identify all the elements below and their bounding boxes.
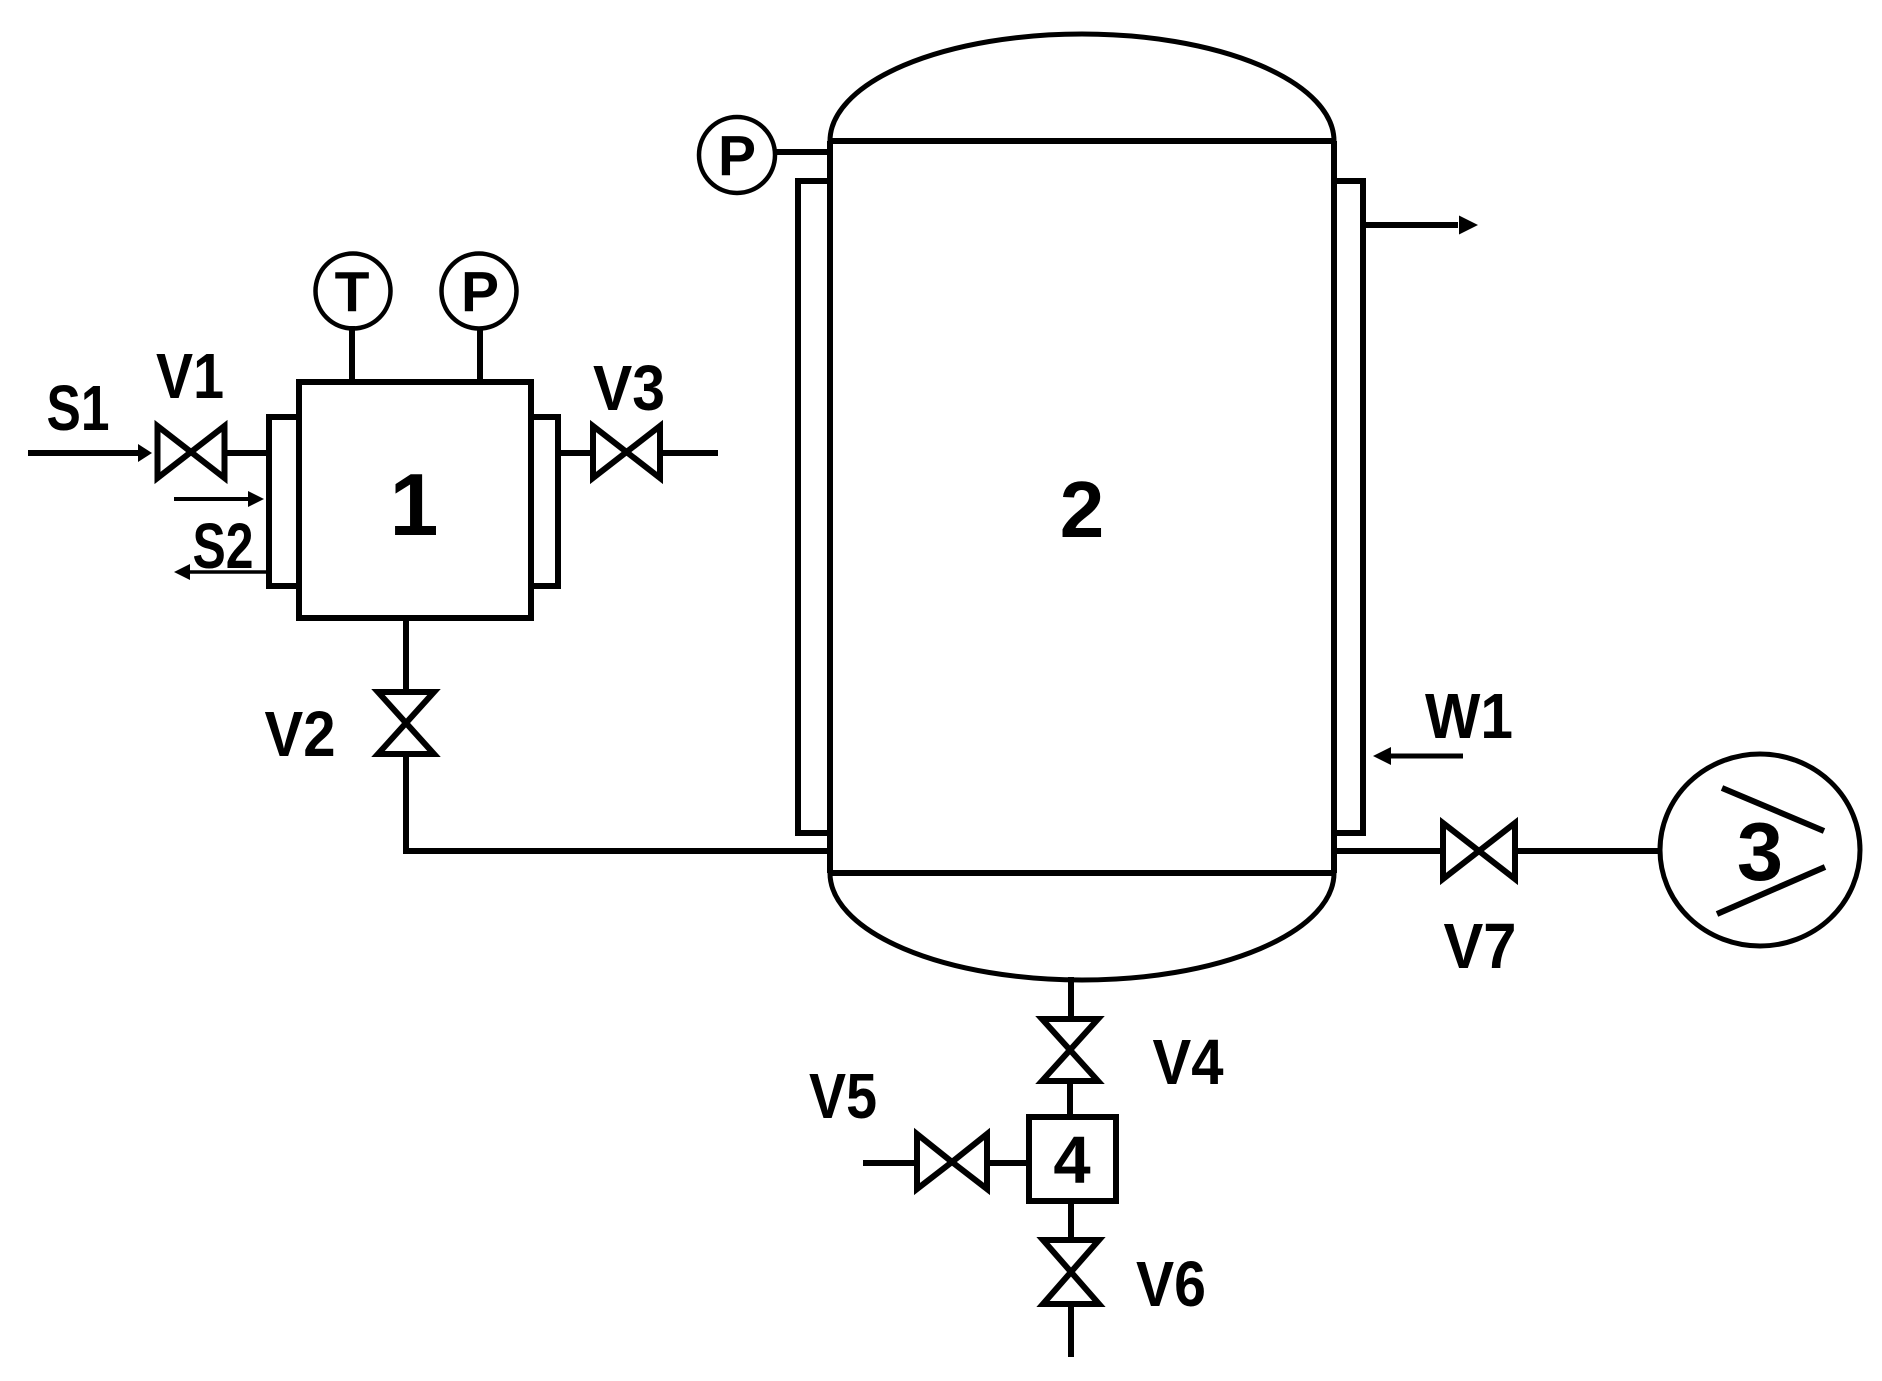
svg-text:W1: W1 [1425,680,1513,752]
valve V6 [1043,1240,1099,1304]
svg-text:P: P [461,260,499,324]
pump 3 [1660,754,1860,946]
jacket right [1334,181,1363,833]
valve V4 [1042,1019,1098,1081]
jacket left [798,181,830,833]
svg-text:V7: V7 [1444,910,1517,982]
svg-text:V1: V1 [156,340,224,412]
gauge P2 on vessel 2 [699,117,775,193]
svg-text:T: T [335,260,370,324]
wire vessel 2 to V7 [1334,848,1443,854]
svg-text:V3: V3 [593,352,665,424]
valve V7 [1443,823,1515,879]
wire vessel 1 bottom stem [403,618,409,692]
svg-text:V6: V6 [1136,1248,1206,1320]
valve V1 [158,426,225,478]
flange left of vessel 1 [269,417,299,586]
flange right of vessel 1 [531,417,558,586]
wire P1 stem [477,327,483,381]
gauge P1 [442,254,517,329]
wire V3 outlet [660,450,718,456]
svg-text:V4: V4 [1153,1026,1224,1098]
wire V4 to unit 4 [1067,1081,1073,1117]
valve V2 [378,692,434,754]
wire S1 inlet [28,450,140,456]
wire V5 to unit 4 [987,1160,1029,1166]
svg-text:1: 1 [390,455,439,554]
arrow S2 outlet [190,570,266,574]
svg-text:S1: S1 [47,372,110,444]
arrow jacket outlet top right [1363,222,1458,228]
svg-text:V5: V5 [809,1060,877,1132]
wire V6 outlet [1068,1304,1074,1357]
wire T stem [349,326,355,381]
valve V3 [593,426,660,478]
wire P2 stem [775,149,830,155]
pump blade bottom [1717,867,1825,914]
vessel 2 shell [830,34,1334,980]
wire V5 inlet [863,1160,920,1166]
wire V2 down [403,754,409,851]
wire unit 4 down [1068,1201,1074,1242]
wire V7 to pump [1515,848,1662,854]
svg-text:3: 3 [1737,805,1783,898]
svg-text:4: 4 [1053,1123,1090,1198]
wire vessel 2 bottom stem [1068,977,1074,1022]
arrow W1 into jacket [1390,754,1463,759]
unit 4 box [1029,1117,1116,1201]
svg-text:P: P [718,124,756,188]
valve V5 [917,1134,987,1189]
vessel 1 [299,382,531,618]
wire to vessel 2 [403,848,830,854]
arrow into flange [174,497,250,501]
wire V1 to flange [225,450,270,456]
svg-text:2: 2 [1060,465,1105,554]
pump blade top [1722,788,1824,831]
wire flange to V3 [558,450,593,456]
svg-text:V2: V2 [265,698,336,770]
gauge T [316,254,391,329]
